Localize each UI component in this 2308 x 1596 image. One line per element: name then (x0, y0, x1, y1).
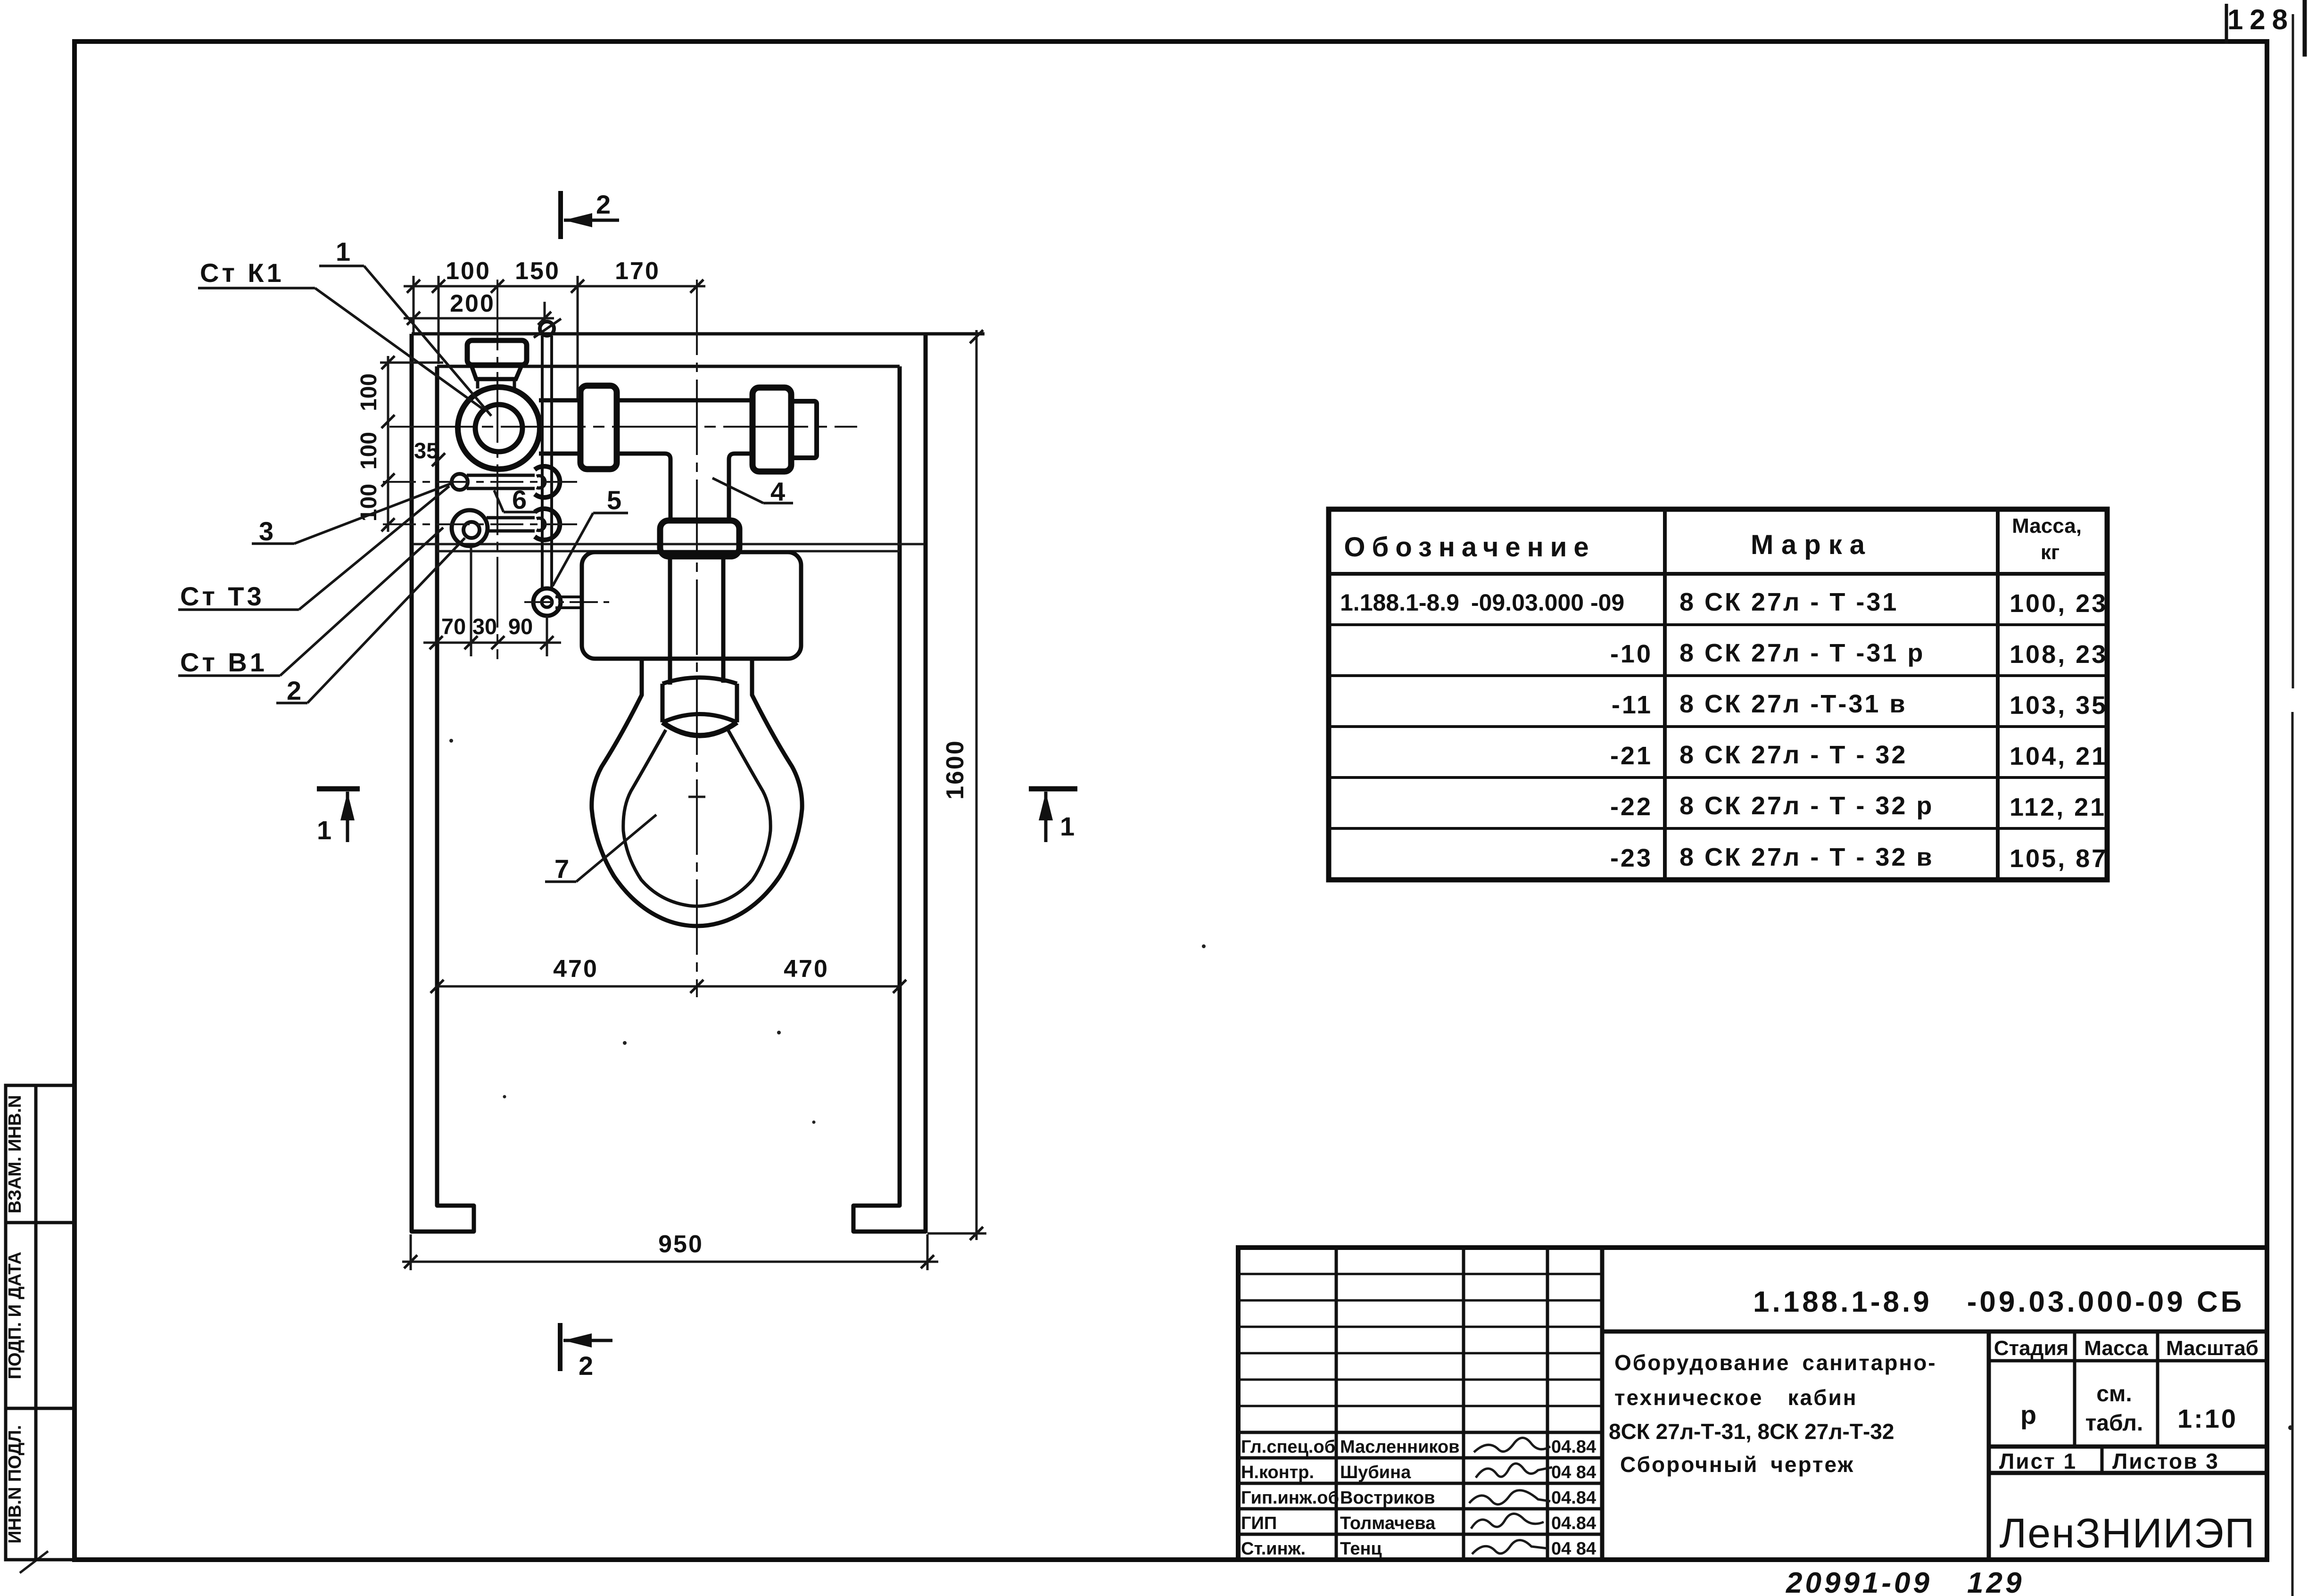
svg-text:Востриков: Востриков (1340, 1488, 1435, 1508)
svg-text:6: 6 (512, 485, 529, 514)
cabin left wall and foot (412, 334, 474, 1232)
cold water pipe (Ст В1) with valve 2 (383, 509, 579, 546)
signature row Ст.инж. Тенц (1241, 1539, 1596, 1559)
flush cistern 5 (582, 552, 801, 659)
svg-text:табл.: табл. (2085, 1411, 2143, 1436)
svg-text:1: 1 (317, 815, 334, 845)
svg-text:200: 200 (450, 290, 495, 317)
svg-text:Масса,: Масса, (2012, 514, 2082, 538)
svg-text:ВЗАМ. ИНВ.N: ВЗАМ. ИНВ.N (5, 1095, 25, 1213)
svg-text:Шубина: Шубина (1340, 1463, 1411, 1482)
svg-text:Сборочный чертеж: Сборочный чертеж (1620, 1452, 1854, 1477)
corner slash mark bottom left (20, 1551, 48, 1573)
toilet bowl 7 outer rim (592, 659, 802, 926)
svg-text:1: 1 (336, 237, 353, 266)
tee fitting 4 with branch down (617, 400, 753, 521)
page right edge scan line (2292, 0, 2305, 1596)
svg-text:кг: кг (2041, 541, 2060, 564)
svg-text:-22: -22 (1610, 793, 1653, 821)
dimension 1600 (927, 330, 986, 1240)
end plug (791, 401, 817, 458)
svg-text:108, 23: 108, 23 (2010, 640, 2108, 669)
svg-text:70: 70 (441, 614, 466, 639)
svg-text:04.84: 04.84 (1551, 1437, 1596, 1457)
svg-text:Ст К1: Ст К1 (200, 258, 284, 288)
page number 128 top right (2226, 4, 2294, 44)
svg-text:-10: -10 (1610, 640, 1653, 668)
svg-text:Н.контр.: Н.контр. (1241, 1463, 1314, 1482)
svg-text:2: 2 (287, 676, 304, 705)
title block sheet row (1989, 1447, 2267, 1473)
svg-text:ИНВ.N ПОДЛ.: ИНВ.N ПОДЛ. (5, 1425, 25, 1543)
flush valve centerline vertical (496, 280, 498, 659)
signature row ГИП Толмачева (1241, 1513, 1596, 1533)
svg-text:см.: см. (2096, 1381, 2132, 1406)
left margin label ИНВ.N ПОДЛ. (5, 1425, 25, 1543)
pipe from valve to union (539, 400, 581, 454)
flush valve cover (467, 340, 527, 389)
svg-text:ГИП: ГИП (1241, 1513, 1277, 1533)
signature row Гип.инж.об Востриков (1241, 1488, 1596, 1508)
svg-text:р: р (2020, 1400, 2036, 1430)
parts table row 6 (1610, 843, 2108, 873)
svg-text:-23: -23 (1610, 844, 1653, 872)
leader 2 to cold water valve (276, 538, 465, 705)
svg-text:1600: 1600 (942, 739, 969, 800)
svg-text:Масса: Масса (2084, 1337, 2148, 1360)
svg-text:2: 2 (596, 190, 613, 219)
svg-text:100: 100 (446, 257, 491, 285)
svg-text:8 СК 27л - Т - 32: 8 СК 27л - Т - 32 (1679, 741, 1907, 769)
svg-text:470: 470 (784, 955, 829, 983)
svg-text:8СК 27л-Т-31, 8СК 27л-Т-32: 8СК 27л-Т-31, 8СК 27л-Т-32 (1609, 1419, 1894, 1444)
svg-text:Масштаб: Масштаб (2166, 1337, 2258, 1360)
dimension row 470 470 (430, 955, 906, 993)
section mark 2 bottom (560, 1323, 612, 1381)
parts table headers (1344, 514, 2082, 564)
svg-text:Обозначение: Обозначение (1344, 532, 1595, 562)
leader Ст Т3 (178, 486, 449, 611)
svg-text:950: 950 (658, 1231, 703, 1258)
svg-text:112, 21: 112, 21 (2010, 793, 2106, 821)
svg-text:470: 470 (553, 955, 598, 983)
title block document number (1602, 1286, 2267, 1331)
svg-text:2: 2 (579, 1351, 596, 1381)
svg-text:103, 35: 103, 35 (2010, 691, 2108, 719)
svg-text:Стадия: Стадия (1994, 1337, 2068, 1360)
section mark 1 right (1029, 789, 1077, 842)
water riser pipe (542, 336, 552, 590)
svg-text:Гип.инж.об: Гип.инж.об (1241, 1488, 1339, 1508)
leader 5 to riser (553, 485, 628, 586)
svg-text:8 СК 27л - Т - 32 р: 8 СК 27л - Т - 32 р (1679, 792, 1934, 820)
svg-text:Ст В1: Ст В1 (180, 647, 267, 677)
leader 3 to hot water pipe end (252, 483, 452, 546)
flush pipe down to bowl (670, 556, 723, 685)
svg-text:Ст Т3: Ст Т3 (180, 581, 265, 611)
dimension row 100 150 170 (404, 257, 705, 293)
svg-text:104, 21: 104, 21 (2010, 742, 2108, 770)
leader Ст В1 (178, 528, 443, 677)
svg-text:100: 100 (356, 373, 381, 411)
parts table row 5 (1610, 792, 2106, 821)
bowl center mark (688, 796, 705, 798)
svg-text:3: 3 (259, 516, 276, 546)
svg-text:35: 35 (414, 438, 438, 463)
left margin stamp box (6, 1085, 74, 1560)
svg-text:1.188.1-8.9 -09.03.000-09 СБ: 1.188.1-8.9 -09.03.000-09 СБ (1753, 1286, 2244, 1318)
svg-text:8 СК 27л - Т -31 р: 8 СК 27л - Т -31 р (1679, 639, 1925, 667)
floor flange collar at partition (660, 521, 739, 556)
cabin right wall and foot (853, 334, 926, 1232)
toilet bowl inner opening (623, 730, 770, 906)
svg-text:100, 23: 100, 23 (2010, 589, 2108, 618)
svg-text:ЛенЗНИИЭП: ЛенЗНИИЭП (2000, 1510, 2256, 1556)
svg-text:04.84: 04.84 (1551, 1513, 1596, 1533)
parts table row 1 (1340, 588, 2108, 618)
svg-text:7: 7 (554, 854, 572, 884)
union coupling right (753, 388, 791, 471)
svg-text:1:10: 1:10 (2177, 1404, 2238, 1433)
svg-text:1.188.1-8.9 -09.03.000 -09: 1.188.1-8.9 -09.03.000 -09 (1340, 589, 1624, 616)
parts table row 4 (1610, 741, 2108, 770)
union coupling left (580, 386, 617, 469)
hot water pipe 6 (Ст Т3) (383, 466, 579, 497)
title block organization ЛенЗНИИЭП (2000, 1510, 2256, 1556)
title block name (1609, 1350, 1937, 1477)
leader Ст К1 (198, 258, 482, 408)
duct partition double line (413, 544, 924, 551)
parts table (1329, 509, 2107, 880)
dimension 200 (404, 290, 554, 325)
riser top cap (534, 319, 561, 338)
svg-text:1: 1 (1060, 811, 1077, 841)
svg-text:170: 170 (615, 257, 660, 285)
svg-text:Толмачева: Толмачева (1340, 1513, 1436, 1533)
title block outer box (1238, 1248, 2267, 1560)
cabin top wall inner line (437, 365, 900, 368)
svg-text:-21: -21 (1610, 742, 1653, 770)
svg-text:8 СК 27л - Т - 32 в: 8 СК 27л - Т - 32 в (1679, 843, 1934, 871)
scan speckles (449, 739, 2293, 1430)
svg-text:техническое кабин: техническое кабин (1614, 1385, 1858, 1410)
svg-text:Гл.спец.об: Гл.спец.об (1241, 1437, 1335, 1457)
left margin label ПОДП. И ДАТА (5, 1252, 25, 1380)
leader 4 to tee (712, 477, 793, 506)
leader 1 to flush valve (319, 237, 491, 416)
dimension 35 (414, 438, 445, 466)
svg-text:ПОДП. И ДАТА: ПОДП. И ДАТА (5, 1252, 25, 1380)
cabin top wall outer line (412, 332, 984, 336)
dimension extension lines top (414, 276, 578, 398)
svg-text:Марка: Марка (1751, 529, 1872, 560)
riser elbow to cistern (524, 588, 609, 616)
svg-text:8 СК 27л -Т-31 в: 8 СК 27л -Т-31 в (1679, 690, 1907, 718)
parts table row 2 (1610, 639, 2108, 669)
svg-text:30: 30 (472, 614, 497, 639)
dimension 950 (402, 1231, 938, 1270)
svg-text:Лист 1: Лист 1 (1999, 1449, 2077, 1473)
left margin label ВЗАМ. ИНВ.N (5, 1095, 25, 1213)
leader 7 to bowl (545, 815, 656, 884)
title block stage/mass/scale cells (1989, 1331, 2267, 1560)
toilet bowl inlet collar (662, 678, 737, 736)
left dimension column 100 100 100 (356, 356, 443, 532)
parts table row 3 (1612, 690, 2108, 719)
svg-text:105, 87: 105, 87 (2010, 844, 2108, 873)
svg-text:04 84: 04 84 (1551, 1539, 1596, 1559)
svg-text:Оборудование санитарно-: Оборудование санитарно- (1614, 1350, 1937, 1375)
section mark 2 top (561, 190, 619, 239)
svg-text:-11: -11 (1612, 691, 1653, 719)
svg-text:90: 90 (508, 614, 533, 639)
dimension row 70 30 90 (423, 547, 561, 656)
svg-text:20991-09 129: 20991-09 129 (1786, 1567, 2024, 1596)
svg-text:04.84: 04.84 (1551, 1488, 1596, 1508)
svg-text:Тенц: Тенц (1340, 1539, 1382, 1559)
signature row Н.контр. Шубина (1241, 1463, 1596, 1482)
svg-text:100: 100 (356, 432, 381, 470)
title block signature grid (1238, 1248, 1602, 1560)
vertical centerline of cabin (696, 280, 698, 997)
leader 6 (494, 485, 538, 514)
svg-text:5: 5 (607, 485, 624, 515)
svg-text:128: 128 (2227, 4, 2294, 35)
flush valve 1 body circle (458, 387, 540, 469)
svg-text:150: 150 (515, 257, 560, 285)
svg-text:Ст.инж.: Ст.инж. (1241, 1539, 1306, 1559)
svg-text:Масленников: Масленников (1340, 1437, 1460, 1457)
svg-text:8 СК 27л - Т -31: 8 СК 27л - Т -31 (1679, 588, 1898, 616)
svg-text:Листов 3: Листов 3 (2112, 1449, 2219, 1473)
section mark 1 left (317, 789, 360, 845)
handwritten sheet number 20991-09 129 bottom (1786, 1567, 2024, 1596)
svg-text:04 84: 04 84 (1551, 1463, 1596, 1482)
signature row Гл.спец.об Масленников (1241, 1437, 1596, 1457)
horizontal centerline of flush pipe run (389, 426, 857, 428)
